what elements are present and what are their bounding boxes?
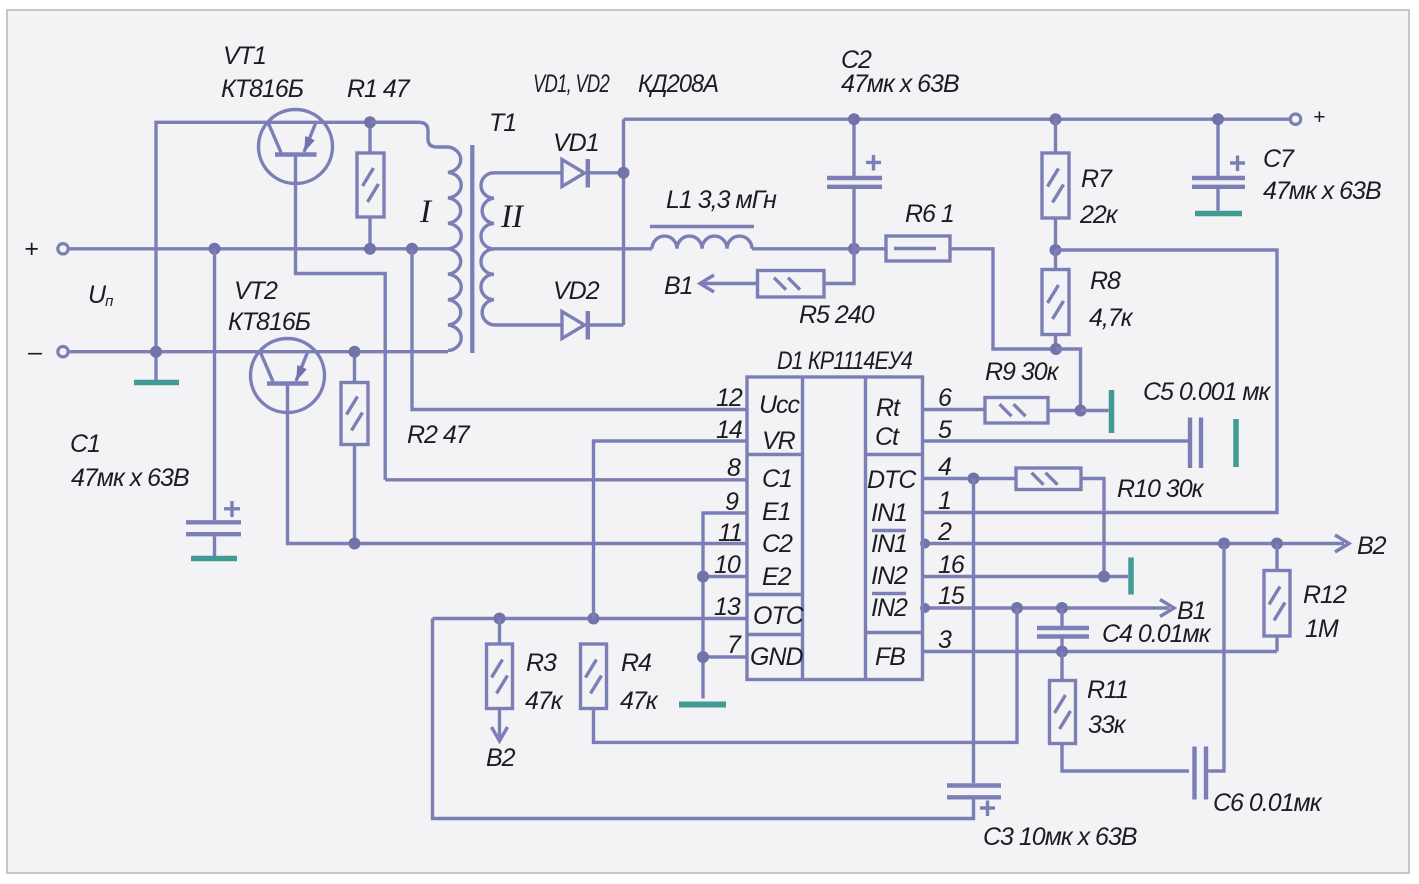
- svg-text:Uсс: Uсс: [759, 391, 801, 419]
- pin Rt label: [876, 394, 901, 422]
- svg-text:47к: 47к: [525, 687, 564, 715]
- svg-text:5: 5: [938, 416, 952, 444]
- svg-text:47мк x 63В: 47мк x 63В: [1263, 177, 1381, 205]
- label VD1 VD2 group: [533, 70, 610, 98]
- junction L1 node: [848, 243, 860, 255]
- node Un label: [88, 281, 113, 310]
- svg-text:E1: E1: [762, 498, 791, 526]
- pin 7 number: [727, 631, 742, 659]
- svg-text:1M: 1M: [1305, 615, 1339, 643]
- label C7 value: [1263, 177, 1381, 205]
- label C5: [1143, 378, 1272, 406]
- junction C2 top: [848, 113, 860, 125]
- label VT2 type: [228, 308, 311, 336]
- label R9: [985, 358, 1060, 386]
- resistor R2: [341, 352, 368, 544]
- svg-text:4: 4: [938, 453, 951, 481]
- svg-text:IN1: IN1: [871, 530, 907, 558]
- pin C1 label: [762, 465, 792, 493]
- wire pin16 line: [923, 575, 1129, 578]
- arrow B1 right: [1160, 597, 1206, 625]
- terminal + input: [24, 235, 68, 263]
- wire pin10 E2: [703, 575, 747, 578]
- svg-text:Ct: Ct: [875, 423, 900, 451]
- resistor R3: [487, 619, 513, 740]
- label R5: [799, 301, 875, 329]
- pin IN2 label: [871, 562, 908, 590]
- wire pin5 to C5: [923, 439, 1189, 442]
- arrow B2 down: [486, 727, 516, 772]
- svg-text:47мк x 63В: 47мк x 63В: [71, 464, 189, 492]
- svg-text:КД208А: КД208А: [638, 70, 718, 98]
- op-amp U1 outline D1: [747, 377, 923, 680]
- capacitor C4: [1037, 608, 1089, 652]
- svg-text:10: 10: [714, 551, 741, 579]
- D1 left column: [747, 377, 803, 680]
- svg-text:1: 1: [938, 487, 951, 515]
- wire secondary tap to L1: [494, 247, 652, 250]
- terminal + output: [1290, 106, 1325, 129]
- label C3: [983, 823, 1137, 851]
- svg-text:IN1: IN1: [871, 499, 907, 527]
- junction FB-C4: [1056, 646, 1068, 658]
- pin 10 number: [714, 551, 741, 579]
- svg-text:R12: R12: [1303, 581, 1347, 609]
- svg-text:8: 8: [727, 454, 741, 482]
- diode VD2: [562, 311, 624, 340]
- junction R9 right: [1075, 405, 1087, 417]
- diode VD1: [562, 159, 624, 188]
- ground C1: [191, 556, 237, 562]
- svg-text:14: 14: [716, 416, 742, 444]
- svg-text:C5 0.001 мк: C5 0.001 мк: [1143, 378, 1272, 406]
- label II: [500, 199, 525, 235]
- label C7: [1263, 145, 1295, 173]
- pin 6 number: [938, 384, 952, 412]
- wire rectifier vertical: [622, 119, 625, 325]
- svg-text:16: 16: [938, 551, 965, 579]
- pin 16 number: [938, 551, 965, 579]
- pin E1 label: [762, 498, 791, 526]
- svg-text:9: 9: [725, 488, 739, 516]
- junction R1 bottom: [364, 243, 376, 255]
- junction R7-R8: [1050, 244, 1062, 256]
- svg-text:R8: R8: [1090, 267, 1121, 295]
- junction GND: [697, 651, 709, 663]
- svg-text:12: 12: [716, 384, 743, 412]
- wire R8 to R9 node: [1056, 349, 1081, 411]
- svg-text:VD1, VD2: VD1, VD2: [533, 70, 610, 98]
- resistor R11: [1050, 652, 1190, 772]
- svg-text:C4 0.01мк: C4 0.01мк: [1102, 620, 1212, 648]
- transformer T1 core: [470, 145, 474, 353]
- label R12: [1303, 581, 1347, 643]
- svg-text:GND: GND: [750, 643, 804, 671]
- junction R8 bottom: [1050, 343, 1062, 355]
- label C4: [1102, 620, 1212, 648]
- pin 11 number: [718, 519, 742, 547]
- pin 5 number: [938, 416, 952, 444]
- svg-text:VD1: VD1: [553, 129, 599, 157]
- svg-text:C6 0.01мк: C6 0.01мк: [1213, 789, 1323, 817]
- pin 14 number: [716, 416, 742, 444]
- junction R4 top: [588, 613, 600, 625]
- svg-text:OTC: OTC: [753, 602, 805, 630]
- D1 right column: [866, 377, 923, 680]
- label C6: [1213, 789, 1323, 817]
- junction R7 top: [1050, 113, 1062, 125]
- wire pin9 E1: [703, 513, 747, 699]
- svg-text:R6 1: R6 1: [905, 200, 954, 228]
- pin GND label: [750, 643, 804, 671]
- junction pin2 dot: [920, 539, 930, 549]
- label R8: [1089, 267, 1134, 332]
- ground pin16: [1128, 558, 1134, 595]
- transformer T1 primary I: [370, 122, 461, 350]
- svg-text:3: 3: [938, 626, 952, 654]
- label R6: [905, 200, 954, 228]
- junction pin15 loop: [1011, 602, 1023, 614]
- pin 12 number: [716, 384, 743, 412]
- resistor R5: [758, 249, 855, 297]
- svg-text:VD2: VD2: [553, 277, 600, 305]
- pin IN1 label: [871, 499, 907, 527]
- svg-text:4,7к: 4,7к: [1089, 304, 1134, 332]
- pin FB label: [875, 643, 905, 671]
- pin 13 number: [714, 593, 741, 621]
- resistor R6: [854, 236, 1056, 349]
- label C1 value: [71, 464, 189, 492]
- svg-text:2: 2: [937, 518, 952, 546]
- label I: [419, 194, 433, 230]
- svg-text:B1: B1: [664, 272, 693, 300]
- svg-text:Rt: Rt: [876, 394, 901, 422]
- capacitor C5: [1190, 418, 1201, 469]
- svg-text:КТ816Б: КТ816Б: [221, 75, 304, 103]
- wire pin15 line: [923, 606, 1170, 609]
- junction E2: [697, 571, 709, 583]
- junction pin16: [1098, 571, 1110, 583]
- label C2: [841, 46, 872, 74]
- resistor R8: [1042, 250, 1069, 349]
- junction pin4: [968, 473, 980, 485]
- svg-text:R2 47: R2 47: [407, 421, 471, 449]
- svg-text:FB: FB: [875, 643, 905, 671]
- wire pin2 B2 line: [923, 542, 1345, 545]
- svg-text:IN2: IN2: [871, 594, 908, 622]
- wire pin8 line: [385, 478, 747, 481]
- svg-text:47мк x 63В: 47мк x 63В: [841, 70, 959, 98]
- svg-text:R4: R4: [621, 649, 651, 677]
- junction R3 top: [494, 613, 506, 625]
- label VT1: [223, 42, 266, 70]
- pin 9 number: [725, 488, 739, 516]
- capacitor C6: [1195, 544, 1225, 800]
- svg-text:R1 47: R1 47: [347, 75, 411, 103]
- arrow B1 left: [664, 272, 758, 300]
- svg-text:22к: 22к: [1079, 201, 1119, 229]
- pin 8 number: [727, 454, 741, 482]
- capacitor C7: [1192, 119, 1245, 210]
- resistor R4: [581, 644, 607, 709]
- capacitor C2: [827, 119, 882, 249]
- wire secondary bottom lead: [494, 323, 562, 326]
- arrow B2 right: [1335, 532, 1387, 560]
- wire secondary top lead: [494, 171, 562, 174]
- label R7: [1079, 165, 1119, 229]
- pin IN2 inv label: [871, 594, 908, 623]
- svg-text:6: 6: [938, 384, 952, 412]
- label VT1 type: [221, 75, 304, 103]
- label C1: [70, 430, 100, 458]
- pin OTC label: [753, 602, 805, 630]
- resistor R1: [357, 122, 384, 249]
- pin E2 label: [762, 563, 792, 591]
- ground C7: [1195, 211, 1242, 217]
- label R2: [407, 421, 471, 449]
- svg-text:C3 10мк x 63В: C3 10мк x 63В: [983, 823, 1137, 851]
- label R11: [1087, 676, 1128, 739]
- svg-text:VR: VR: [762, 427, 796, 455]
- svg-text:R11: R11: [1087, 676, 1128, 704]
- pin 4 number: [938, 453, 951, 481]
- wire - rail: [69, 350, 449, 353]
- svg-text:33к: 33к: [1088, 711, 1127, 739]
- junction C1 top: [209, 243, 221, 255]
- wire top-left rail: [156, 122, 420, 380]
- svg-text:15: 15: [938, 582, 965, 610]
- junction R2 top: [349, 346, 361, 358]
- junction VD1 out: [618, 167, 630, 179]
- wire + rail: [69, 247, 449, 250]
- wire DTC to C3 vertical: [972, 479, 975, 784]
- pin 2 number: [937, 518, 952, 546]
- wire divider tap to right: [923, 250, 1278, 513]
- pin 1 number: [938, 487, 951, 515]
- svg-text:B2: B2: [1357, 532, 1387, 560]
- wire VR pin14: [594, 441, 748, 619]
- svg-text:КТ816Б: КТ816Б: [228, 308, 311, 336]
- svg-text:R3: R3: [526, 649, 557, 677]
- junction R1 top: [364, 116, 376, 128]
- label VD2: [553, 277, 600, 305]
- inductor L1: [650, 227, 754, 249]
- ground IC: [679, 702, 726, 708]
- wire R9 to ground: [1081, 409, 1109, 412]
- svg-text:13: 13: [714, 593, 741, 621]
- svg-text:L1 3,3 мГн: L1 3,3 мГн: [666, 186, 777, 214]
- svg-text:C1: C1: [762, 465, 792, 493]
- transistor VT2: [251, 339, 748, 544]
- label T1: [489, 109, 516, 137]
- label R3: [525, 649, 564, 715]
- ground R9: [1109, 390, 1115, 433]
- svg-text:DTC: DTC: [867, 466, 917, 494]
- svg-text:B2: B2: [486, 744, 516, 772]
- label C2 value: [841, 70, 959, 98]
- ground C5: [1233, 419, 1239, 467]
- pin 3 number: [938, 626, 952, 654]
- transistor VT1: [259, 110, 386, 480]
- svg-text:–: –: [27, 338, 43, 366]
- svg-text:VT1: VT1: [223, 42, 266, 70]
- wire L1 to node: [752, 247, 854, 250]
- svg-text:C1: C1: [70, 430, 100, 458]
- svg-text:C2: C2: [762, 530, 793, 558]
- wire FB line: [923, 650, 1278, 653]
- svg-text:7: 7: [727, 631, 742, 659]
- svg-text:I: I: [419, 194, 433, 230]
- junction R2 bottom: [349, 538, 361, 550]
- junction C4 top: [1056, 602, 1068, 614]
- pin Ct label: [875, 423, 900, 451]
- svg-text:R5 240: R5 240: [799, 301, 875, 329]
- resistor R10: [1016, 468, 1104, 577]
- label R1: [347, 75, 411, 103]
- pin DTC label: [867, 466, 917, 494]
- pin IN1 inv label: [871, 530, 907, 558]
- label VD type: [638, 70, 718, 98]
- svg-text:II: II: [500, 199, 525, 235]
- junction Ucc tap: [406, 243, 418, 255]
- pin Ucc label: [759, 391, 801, 419]
- junction C7 top: [1212, 113, 1224, 125]
- resistor R7: [1042, 119, 1069, 250]
- svg-text:R9 30к: R9 30к: [985, 358, 1060, 386]
- pin C2 label: [762, 530, 793, 558]
- capacitor C3: [433, 619, 1002, 819]
- junction pin15 dot: [920, 603, 930, 613]
- wire OTC line: [433, 617, 748, 620]
- wire pin7 GND: [703, 655, 747, 658]
- wire Ucc pin12: [412, 249, 747, 410]
- wire pin15 loop to R4: [594, 608, 1018, 742]
- svg-text:+: +: [1313, 106, 1325, 129]
- svg-text:E2: E2: [762, 563, 792, 591]
- svg-text:R7: R7: [1081, 165, 1113, 193]
- svg-text:IN2: IN2: [871, 562, 908, 590]
- resistor R12: [1264, 544, 1290, 652]
- junction B2-C6: [1218, 538, 1230, 550]
- svg-text:R10 30к: R10 30к: [1117, 475, 1205, 503]
- label D1: [777, 347, 912, 375]
- label R10: [1117, 475, 1205, 503]
- capacitor C1: [186, 249, 241, 556]
- svg-text:VT2: VT2: [234, 277, 278, 305]
- terminal - input: [27, 338, 68, 366]
- label VT2: [234, 277, 278, 305]
- svg-text:D1 КР1114ЕУ4: D1 КР1114ЕУ4: [777, 347, 912, 375]
- svg-text:+: +: [24, 235, 38, 263]
- pin VR label: [762, 427, 796, 455]
- svg-text:47к: 47к: [620, 687, 659, 715]
- svg-text:C7: C7: [1263, 145, 1295, 173]
- wire pin4 line: [923, 477, 1017, 480]
- junction minus-gnd: [150, 346, 162, 358]
- junction B2-R12: [1271, 538, 1283, 550]
- resistor R9: [923, 398, 1081, 424]
- wire top right rail: [624, 117, 1291, 120]
- svg-text:T1: T1: [489, 109, 516, 137]
- transformer T1 secondary II: [481, 173, 494, 325]
- svg-text:11: 11: [718, 519, 742, 547]
- pin 15 number: [938, 582, 965, 610]
- label VD1: [553, 129, 599, 157]
- label R4: [620, 649, 659, 715]
- ground input: [134, 380, 179, 386]
- label L1: [666, 186, 777, 214]
